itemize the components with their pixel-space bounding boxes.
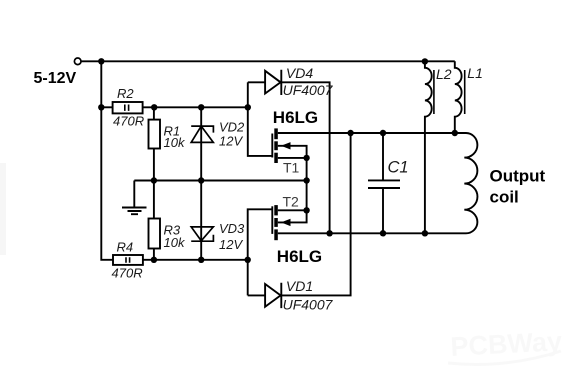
junction node riser top bus: [347, 130, 353, 136]
junction node R1 top: [151, 104, 157, 110]
wire: VD4 cathode lead and drop to bottom bus: [281, 82, 329, 233]
resistor R4 body: [113, 255, 143, 265]
zener diode VD2: [191, 126, 213, 142]
output coil winding: [464, 133, 477, 233]
junction node top-left: [98, 58, 104, 64]
wire: VD3 stem: [200, 181, 202, 260]
wire: R2 left lead: [101, 106, 112, 108]
svg-text:R2: R2: [117, 86, 134, 101]
svg-text:10k: 10k: [164, 235, 186, 250]
ground: [122, 208, 147, 215]
transistor T2 bars: [274, 205, 278, 215]
svg-text:10k: 10k: [164, 135, 186, 150]
faint scan artifact left edge: [0, 163, 6, 255]
svg-text:T2: T2: [283, 193, 300, 209]
wire: top drain bus (T1 drain to output coil): [278, 132, 466, 134]
svg-text:Output: Output: [490, 167, 546, 186]
input terminal: [74, 58, 81, 65]
junction node T2 source: [303, 207, 309, 213]
wire: VD2 stem: [200, 107, 202, 180]
svg-text:VD3: VD3: [219, 221, 245, 236]
wire: VD1 anode lead: [248, 294, 265, 296]
wire: C1 top stem: [382, 133, 384, 180]
core bar of L1: [464, 70, 466, 114]
junction node L2 top: [422, 58, 428, 64]
wire: R1 top stem: [153, 107, 155, 119]
resistor R2 body: [113, 102, 143, 113]
junction node L1 bottom: [452, 130, 458, 136]
wire: R3 top stem: [153, 181, 155, 219]
svg-text:H6LG: H6LG: [273, 108, 318, 127]
wire: C1 bottom stem: [382, 188, 384, 233]
svg-text:VD4: VD4: [286, 65, 313, 81]
wire: T2 body wire: [278, 210, 307, 222]
junction node R2 left: [98, 104, 104, 110]
junction node center tap: [303, 177, 309, 183]
junction node L2 bottom: [422, 230, 428, 236]
junction node VD1 anode: [245, 257, 251, 263]
capacitor C1 plates: [368, 180, 400, 188]
wire: T1 source wire: [278, 157, 307, 159]
wire: R3 bottom stem: [153, 249, 155, 260]
svg-text:T1: T1: [283, 160, 300, 176]
wire: T1 source to T2 source link: [306, 158, 308, 210]
junction node R3 bottom: [151, 257, 157, 263]
junction node VD2 bottom: [198, 177, 204, 183]
wire: T1 body wire: [278, 146, 307, 158]
transistor T2 body arrow: [281, 219, 291, 226]
svg-text:12V: 12V: [219, 237, 243, 252]
junction node VD4 anode: [245, 104, 251, 110]
svg-text:12V: 12V: [219, 134, 243, 149]
wire: VD1 left vertical from gate node: [247, 260, 249, 296]
wire: VD4 left vertical from gate node: [247, 82, 249, 107]
junction node T1 source: [303, 155, 309, 161]
wire: center tap line: [134, 180, 306, 182]
junction node C1 top: [380, 130, 386, 136]
junction node C1 bottom: [380, 230, 386, 236]
resistor R3 body: [149, 219, 161, 249]
svg-text:5-12V: 5-12V: [34, 70, 77, 87]
resistor R2 power marks: [125, 105, 129, 111]
junction node VD3 bottom: [198, 257, 204, 263]
wire: T2 gate riser and lead: [248, 209, 273, 259]
svg-text:L1: L1: [467, 65, 483, 81]
transistor T1 gate plate: [271, 134, 273, 158]
resistor R4 power marks: [126, 257, 130, 263]
wire: top gate node line (R2 right to VD4 corner): [143, 106, 248, 108]
wire: top supply bus: [81, 60, 455, 62]
diode VD1: [265, 283, 281, 308]
wire: left vertical feed from input to R4: [101, 61, 113, 259]
junction node R1 bottom: [151, 177, 157, 183]
wire: R1 bottom stem: [153, 149, 155, 181]
transistor T1 bars: [274, 128, 278, 139]
svg-text:VD1: VD1: [286, 278, 313, 294]
svg-text:470R: 470R: [113, 114, 144, 129]
wire: bottom drain bus (T2 drain to output coil): [278, 232, 466, 234]
wire: ground stem: [133, 181, 135, 208]
svg-text:coil: coil: [490, 188, 519, 207]
transistor T2 gate plate: [271, 206, 273, 234]
junction node VD2 top: [198, 104, 204, 110]
svg-text:UF4007: UF4007: [283, 82, 334, 98]
svg-text:R4: R4: [117, 239, 134, 254]
wire: bottom gate node line (R4 right to VD1 corner): [143, 259, 248, 261]
diode VD4: [265, 70, 281, 95]
wire: T1 gate drop and lead: [248, 107, 272, 156]
resistor R1 body: [149, 120, 161, 149]
svg-text:UF4007: UF4007: [283, 296, 334, 312]
inductor L1: [455, 61, 462, 133]
core bar of L2: [433, 70, 435, 114]
transistor T1 body arrow: [281, 142, 291, 149]
svg-text:470R: 470R: [112, 266, 143, 281]
svg-text:C1: C1: [388, 159, 409, 177]
junction node VD4 bottom: [326, 230, 332, 236]
svg-text:L2: L2: [436, 66, 452, 82]
wire: VD1 cathode lead and riser to top bus: [281, 133, 350, 295]
svg-text:VD2: VD2: [219, 120, 245, 135]
svg-text:H6LG: H6LG: [277, 247, 322, 266]
watermark: [448, 326, 563, 364]
wire: T2 source wire: [278, 209, 307, 211]
zener diode VD3: [191, 227, 213, 241]
inductor L2: [425, 61, 432, 233]
wire: VD4 anode lead: [248, 81, 265, 83]
